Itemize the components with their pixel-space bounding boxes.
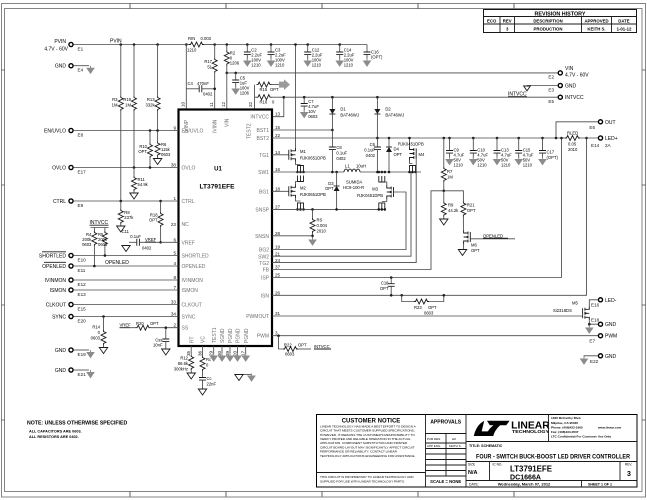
svg-text:Wednesday, March 07, 2012: Wednesday, March 07, 2012	[498, 482, 551, 487]
svg-text:38: 38	[171, 163, 177, 168]
svg-text:E22: E22	[590, 359, 599, 364]
svg-text:BG2: BG2	[259, 248, 269, 254]
terminal E13 ISMON	[69, 288, 73, 292]
svg-text:BST1: BST1	[256, 128, 269, 134]
terminal E2 VIN	[558, 71, 562, 75]
svg-text:GND: GND	[605, 322, 617, 328]
wire FB pin37	[272, 191, 444, 270]
svg-text:0603: 0603	[285, 352, 295, 357]
svg-text:OUT: OUT	[605, 120, 616, 126]
svg-text:M6: M6	[471, 243, 477, 248]
svg-text:0.1uF: 0.1uF	[364, 148, 375, 153]
svg-text:GND: GND	[55, 368, 67, 374]
svg-text:R12: R12	[180, 356, 188, 361]
svg-text:22nF: 22nF	[207, 382, 217, 387]
node FB junction	[443, 190, 446, 193]
svg-text:E13: E13	[78, 292, 87, 297]
linear technology logo	[474, 421, 493, 436]
wire BST2/VOUT line pin22	[272, 137, 562, 139]
wire E3 GND stub	[527, 85, 558, 87]
terminal E9 CTRL	[69, 199, 73, 203]
wire PVIN rail right	[215, 44, 367, 46]
capacitor C11	[137, 239, 140, 246]
SECTION:BOTTOM	[174, 346, 255, 395]
svg-text:37: 37	[275, 265, 281, 270]
svg-text:GND: GND	[55, 348, 67, 354]
wire OPENLED line	[73, 265, 178, 267]
svg-text:E20: E20	[78, 319, 87, 324]
svg-text:1210: 1210	[454, 163, 464, 168]
svg-text:SYNC: SYNC	[52, 315, 66, 321]
wire ISN pin26	[272, 138, 587, 295]
svg-text:34: 34	[171, 312, 177, 317]
ground PGND pin17	[245, 346, 247, 354]
svg-text:OPT: OPT	[394, 152, 403, 157]
svg-text:FOUR - SWITCH BUCK-BOOST LED D: FOUR - SWITCH BUCK-BOOST LED DRIVER CONT…	[476, 454, 631, 461]
capacitor C9	[448, 137, 451, 140]
SECTION:RIGHT	[272, 120, 618, 364]
svg-text:4.7V - 60V: 4.7V - 60V	[565, 73, 589, 79]
ground tie open	[235, 375, 243, 381]
wire pin12 VIN riser	[226, 73, 228, 110]
svg-text:300kHz: 300kHz	[174, 367, 188, 372]
svg-text:RT: RT	[189, 336, 195, 343]
svg-text:ISN: ISN	[261, 293, 270, 299]
svg-text:0.05: 0.05	[568, 142, 577, 147]
resistor R5	[104, 228, 106, 232]
svg-text:E12: E12	[78, 282, 87, 287]
svg-text:HC9-100-R: HC9-100-R	[343, 185, 364, 190]
capacitor C12	[306, 43, 309, 46]
svg-text:1: 1	[173, 196, 176, 201]
svg-text:27: 27	[275, 204, 281, 209]
wire E21 to ground	[73, 369, 89, 371]
SECTION:BRIDGE	[272, 43, 562, 269]
wire BG2 pin19 to M3 gate	[272, 192, 406, 250]
svg-text:M2: M2	[300, 186, 306, 191]
svg-text:SYNC: SYNC	[182, 315, 196, 321]
svg-text:TG1: TG1	[259, 153, 269, 159]
resistor R10	[149, 129, 152, 132]
svg-text:R19: R19	[123, 97, 131, 102]
svg-text:0603: 0603	[424, 311, 434, 316]
terminal E3 GND	[558, 83, 562, 87]
wire SW2 rail	[360, 171, 421, 173]
ground PGND pin39	[229, 346, 231, 354]
wire CLKOUT line	[73, 304, 178, 306]
capacitor C5	[234, 72, 237, 75]
capacitor C2	[246, 43, 249, 46]
resistor R23	[400, 294, 403, 297]
svg-text:R3: R3	[112, 97, 118, 102]
svg-text:28: 28	[275, 231, 281, 236]
svg-text:CLKOUT: CLKOUT	[46, 303, 66, 309]
svg-text:PGND: PGND	[236, 328, 242, 343]
svg-text:OPT: OPT	[471, 248, 480, 253]
svg-text:D1: D1	[340, 107, 346, 112]
svg-text:1-01-12: 1-01-12	[617, 26, 632, 31]
diode D1	[331, 96, 334, 99]
svg-text:U1: U1	[214, 167, 222, 173]
svg-text:0603: 0603	[308, 114, 318, 119]
svg-text:Rc: Rc	[206, 357, 211, 362]
svg-text:R17: R17	[204, 59, 212, 64]
svg-text:0402: 0402	[366, 153, 376, 158]
svg-text:BAT46WJ: BAT46WJ	[385, 113, 404, 118]
svg-text:OPENLED: OPENLED	[483, 233, 503, 238]
diode D3	[335, 171, 338, 174]
svg-text:1210: 1210	[187, 48, 197, 53]
svg-text:1M: 1M	[112, 103, 118, 108]
svg-text:R23: R23	[414, 305, 422, 310]
svg-text:1210: 1210	[501, 163, 511, 168]
svg-text:M5: M5	[572, 301, 578, 306]
svg-text:THIS CIRCUIT IS PROPRIETARY TO: THIS CIRCUIT IS PROPRIETARY TO LINEAR TE…	[320, 475, 414, 479]
wire OUT stub	[556, 122, 598, 138]
svg-text:E10: E10	[78, 258, 87, 263]
svg-text:CTRL: CTRL	[53, 199, 66, 205]
terminal E21 GND	[69, 368, 73, 372]
svg-text:OPT: OPT	[149, 218, 158, 223]
svg-text:E11: E11	[78, 268, 86, 273]
terminal E20 SYNC	[69, 314, 73, 318]
wire LED- to M5 drain	[589, 300, 598, 307]
capacitor C15	[517, 137, 520, 140]
svg-text:44.2k: 44.2k	[448, 208, 459, 213]
svg-text:32: 32	[248, 101, 253, 107]
svg-text:LED-: LED-	[605, 298, 617, 304]
svg-text:VREF: VREF	[182, 240, 195, 246]
svg-text:IVINN: IVINN	[213, 119, 219, 133]
ground tie gray	[248, 374, 255, 382]
svg-text:1206: 1206	[230, 61, 240, 66]
svg-text:E16: E16	[591, 303, 600, 308]
svg-text:20: 20	[233, 350, 238, 356]
svg-text:ISMON: ISMON	[182, 288, 199, 294]
terminal E10 SHORTLED	[69, 253, 73, 257]
resistor R20	[130, 327, 136, 329]
svg-text:KEITH S.: KEITH S.	[449, 444, 462, 448]
wire CTRL line	[73, 200, 178, 202]
svg-text:FB: FB	[263, 268, 270, 274]
svg-text:0603: 0603	[161, 152, 171, 157]
wire ISMON line	[73, 289, 178, 291]
svg-text:LTC Confidential-For Customer: LTC Confidential-For Customer Use Only	[551, 435, 611, 439]
svg-text:C18: C18	[381, 281, 389, 286]
svg-text:SHORTLED: SHORTLED	[182, 254, 210, 260]
svg-text:E17: E17	[78, 170, 87, 175]
svg-text:PWM: PWM	[257, 334, 269, 340]
svg-text:2A: 2A	[605, 143, 612, 148]
svg-text:N/A: N/A	[468, 470, 478, 476]
svg-text:OPT: OPT	[428, 305, 437, 310]
capacitor C4	[186, 88, 199, 90]
wire INTVCC rail to E5	[284, 96, 558, 98]
svg-text:M1: M1	[300, 149, 306, 154]
svg-text:OPT: OPT	[138, 149, 147, 154]
svg-text:R13: R13	[147, 97, 155, 102]
svg-text:PWMOUT: PWMOUT	[246, 314, 269, 320]
svg-text:TEST1: TEST1	[212, 327, 218, 343]
svg-text:25: 25	[275, 273, 281, 278]
svg-text:1210: 1210	[251, 63, 261, 68]
wire IVINMON line	[73, 279, 178, 281]
svg-text:0603: 0603	[91, 336, 101, 341]
wire SNSN pin28	[272, 235, 313, 237]
revision history table	[484, 10, 637, 33]
svg-text:M4: M4	[419, 152, 425, 157]
svg-text:E5: E5	[548, 99, 554, 104]
svg-text:KEITH S.: KEITH S.	[587, 26, 605, 31]
inductor L1	[344, 169, 360, 172]
transistor M5	[583, 306, 590, 320]
svg-text:23: 23	[171, 222, 177, 227]
terminal E12 IVINMON	[69, 278, 73, 282]
svg-text:PWM: PWM	[605, 334, 617, 340]
svg-text:CLKOUT: CLKOUT	[182, 303, 202, 309]
resistor R12 on RT pin	[190, 346, 192, 355]
svg-text:SNSN: SNSN	[255, 234, 269, 240]
svg-text:2: 2	[173, 323, 176, 328]
resistor R9	[443, 191, 445, 202]
svg-text:R16: R16	[260, 100, 268, 105]
svg-text:E2: E2	[548, 75, 554, 80]
terminal E16 LED-	[598, 298, 602, 302]
svg-text:SNSP: SNSP	[255, 207, 269, 213]
svg-text:SS: SS	[182, 326, 189, 332]
terminal E7 PWM	[598, 334, 602, 338]
svg-text:E3: E3	[548, 88, 554, 93]
ground at E22	[581, 357, 588, 365]
resistor R17	[213, 43, 216, 46]
svg-text:RJK0451DPB: RJK0451DPB	[398, 142, 424, 147]
svg-text:0402: 0402	[142, 246, 152, 251]
svg-text:7: 7	[173, 285, 176, 290]
svg-text:RJK0651DPB: RJK0651DPB	[300, 192, 326, 197]
svg-text:OPENLED: OPENLED	[182, 264, 206, 270]
svg-text:RIN: RIN	[188, 36, 195, 41]
svg-text:APP ENG.: APP ENG.	[427, 444, 441, 448]
op-amp U1 LT3791EFE controller IC body	[179, 110, 273, 347]
svg-text:0603: 0603	[82, 242, 92, 247]
wire PVIN rail left	[73, 44, 186, 46]
resistor R8	[120, 201, 122, 209]
svg-text:Fax: (408)434-0507: Fax: (408)434-0507	[551, 430, 579, 434]
svg-text:RS: RS	[317, 218, 323, 223]
svg-text:LED+: LED+	[605, 136, 618, 142]
svg-text:VIN: VIN	[225, 118, 231, 127]
svg-text:3: 3	[627, 471, 631, 478]
svg-text:OPT: OPT	[380, 286, 389, 291]
wire SW1 rail	[272, 171, 344, 173]
svg-text:14: 14	[275, 150, 281, 155]
svg-text:0.004: 0.004	[317, 223, 328, 228]
wire EN/UVLO line	[73, 130, 178, 132]
SECTION:IC	[171, 101, 281, 356]
transistor M3	[387, 185, 394, 199]
svg-text:SGND: SGND	[220, 328, 226, 343]
svg-text:HZ: HZ	[452, 437, 456, 441]
svg-text:PGND: PGND	[244, 328, 250, 343]
resistor R21	[444, 191, 464, 202]
ground at E21	[87, 370, 94, 378]
wire TEST2 pin32 riser	[254, 85, 256, 110]
svg-text:LT3791EFE: LT3791EFE	[199, 184, 235, 191]
ground TEST1 pin29	[213, 346, 215, 354]
svg-text:L1: L1	[345, 164, 350, 169]
svg-text:OPT: OPT	[298, 343, 307, 348]
svg-text:SUPPLIED FOR USE WITH LINEAR T: SUPPLIED FOR USE WITH LINEAR TECHNOLOGY …	[320, 479, 405, 483]
svg-text:18: 18	[275, 186, 281, 191]
svg-text:470nF: 470nF	[197, 81, 209, 86]
svg-text:332k: 332k	[146, 103, 156, 108]
svg-text:TITLE: SCHEMATIC: TITLE: SCHEMATIC	[469, 444, 503, 448]
svg-text:ISP: ISP	[261, 276, 270, 282]
capacitor C10	[472, 137, 475, 140]
resistor Rc on VC pin	[202, 346, 204, 356]
ground at E4	[87, 66, 94, 74]
svg-text:SHEET 1 OF 1: SHEET 1 OF 1	[588, 483, 612, 487]
svg-text:15: 15	[275, 125, 281, 130]
svg-text:D2: D2	[385, 107, 391, 112]
svg-text:2010: 2010	[568, 147, 578, 152]
wire TG2 pin24 to M4 gate	[272, 154, 416, 263]
svg-text:E7: E7	[589, 339, 595, 344]
terminal E4 GND	[69, 64, 73, 68]
svg-text:VREF: VREF	[120, 323, 132, 328]
svg-text:E21: E21	[78, 372, 87, 377]
svg-text:DC1666A: DC1666A	[510, 475, 541, 482]
svg-text:9: 9	[173, 126, 176, 131]
ground SGND pin30	[221, 346, 223, 354]
capacitor C16	[366, 45, 368, 53]
svg-text:INTVCC: INTVCC	[250, 115, 269, 121]
svg-text:INTVCC: INTVCC	[314, 344, 330, 349]
svg-text:RJK0651DPB: RJK0651DPB	[300, 156, 326, 161]
svg-text:EN/UVLO: EN/UVLO	[44, 129, 66, 135]
svg-text:0.003: 0.003	[201, 36, 212, 41]
svg-text:86.6k: 86.6k	[178, 361, 189, 366]
svg-text:IVINMON: IVINMON	[182, 278, 204, 284]
svg-text:0603: 0603	[98, 242, 108, 247]
svg-text:BG1: BG1	[259, 189, 269, 195]
svg-text:51: 51	[207, 65, 212, 70]
svg-text:OPENLED: OPENLED	[105, 260, 129, 266]
svg-text:R9: R9	[448, 203, 454, 208]
resistor R11	[133, 168, 135, 177]
diode D4	[388, 137, 391, 140]
svg-text:GND: GND	[55, 64, 67, 70]
svg-text:PGND: PGND	[228, 328, 234, 343]
wire BST1 pin15	[272, 129, 332, 131]
svg-text:10uH: 10uH	[356, 164, 366, 169]
svg-text:R22: R22	[284, 343, 292, 348]
svg-text:12: 12	[221, 101, 226, 107]
resistor R16	[255, 96, 257, 98]
svg-text:VREF: VREF	[145, 237, 157, 242]
svg-text:Phone: (408)432-1900: Phone: (408)432-1900	[551, 425, 583, 429]
svg-text:26: 26	[275, 290, 281, 295]
svg-text:APPROVALS: APPROVALS	[430, 420, 461, 426]
svg-text:C11: C11	[122, 229, 130, 234]
resistor RIN current sense	[185, 43, 188, 46]
svg-text:SIZE: SIZE	[468, 463, 475, 467]
wire SNSP rail pin27	[272, 208, 386, 210]
svg-text:31: 31	[275, 311, 281, 316]
resistor R19	[133, 43, 136, 46]
svg-text:OPENLED: OPENLED	[42, 264, 66, 270]
ground at E3	[524, 86, 531, 91]
ground at M5 source	[588, 324, 590, 326]
svg-text:REV.: REV.	[625, 463, 632, 467]
transistor M2	[272, 190, 289, 192]
resistor R3	[120, 43, 123, 46]
svg-text:DATE:: DATE:	[469, 483, 479, 487]
capacitor C14	[338, 43, 341, 46]
svg-text:E18: E18	[591, 318, 600, 323]
capacitor C3	[270, 43, 273, 46]
svg-text:Milpitas, CA 95035: Milpitas, CA 95035	[551, 421, 578, 425]
svg-text:PVIN: PVIN	[54, 39, 66, 45]
svg-text:54.9k: 54.9k	[138, 182, 149, 187]
svg-text:IVINMON: IVINMON	[45, 278, 67, 284]
svg-text:PRODUCTION: PRODUCTION	[534, 26, 563, 31]
svg-text:ALL RESISTORS ARE 0402.: ALL RESISTORS ARE 0402.	[29, 435, 79, 439]
resistor R7	[443, 137, 446, 140]
capacitor C7	[303, 96, 306, 99]
wire OVLO line	[73, 167, 178, 169]
svg-text:TEST2: TEST2	[247, 123, 253, 139]
svg-text:39: 39	[225, 350, 230, 356]
wire VIN line to E2	[227, 72, 558, 74]
terminal E5 INTVCC	[558, 95, 562, 99]
svg-text:E14: E14	[591, 143, 600, 148]
terminal E22 GND	[598, 354, 602, 358]
svg-text:1210: 1210	[523, 163, 533, 168]
svg-text:(OPT): (OPT)	[371, 55, 383, 60]
svg-text:GND: GND	[605, 354, 617, 360]
address cell	[551, 416, 622, 438]
wire PWM pin3 to E7	[272, 335, 598, 337]
svg-text:SUMIDA: SUMIDA	[346, 180, 362, 185]
resistor R14	[102, 315, 105, 318]
svg-text:OPT: OPT	[150, 321, 159, 326]
svg-text:21: 21	[275, 251, 281, 256]
svg-text:APPROVED: APPROVED	[584, 18, 608, 23]
terminal E19 GND	[69, 348, 73, 352]
svg-text:M3: M3	[372, 187, 378, 192]
svg-text:LT3791EFE: LT3791EFE	[510, 464, 552, 474]
terminal E14 LED+	[598, 136, 602, 140]
svg-text:VIN: VIN	[565, 66, 574, 72]
wire E22 to ground	[584, 356, 598, 357]
svg-text:11: 11	[209, 102, 214, 107]
svg-text:www.linear.com: www.linear.com	[597, 425, 622, 429]
terminal E1 PVIN	[69, 42, 73, 46]
svg-text:REV: REV	[503, 18, 512, 23]
svg-text:16: 16	[275, 167, 281, 172]
wire SYNC line	[73, 316, 178, 318]
svg-text:1M: 1M	[447, 175, 453, 180]
svg-text:ECO: ECO	[487, 18, 497, 23]
svg-text:BST2: BST2	[256, 136, 269, 142]
ground PGND pin20	[237, 346, 239, 354]
svg-text:SW1: SW1	[258, 170, 269, 176]
ground at E19	[87, 350, 94, 358]
svg-text:SCALE = NONE: SCALE = NONE	[430, 479, 461, 484]
resistor R4	[93, 228, 95, 232]
svg-text:SHORTLED: SHORTLED	[39, 254, 67, 260]
